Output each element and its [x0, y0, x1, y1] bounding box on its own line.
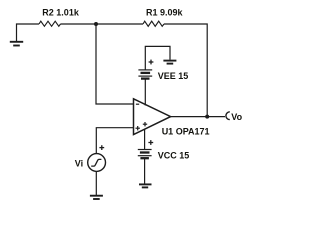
wire Vi source bottom to GND4	[95, 171, 97, 195]
source VG1 plus marker	[99, 145, 104, 150]
op-amp U1 inverting input marker	[136, 103, 139, 105]
wire from GND1 up to R2	[17, 24, 40, 42]
ground GND4	[90, 196, 103, 199]
ground GND3	[139, 184, 152, 187]
resistor R1	[143, 21, 164, 26]
wire non-inverting input to Vi source	[96, 128, 133, 154]
battery V2 VEE plates	[138, 70, 152, 79]
wire VEE battery bottom to op-amp top	[144, 79, 146, 106]
port Vo arc	[226, 112, 230, 120]
wire R2 to junction	[61, 23, 97, 25]
wire R1 to right corner down to output	[164, 24, 207, 117]
node junction J2 (output)	[205, 115, 209, 119]
source VG1 circle	[88, 154, 106, 172]
wire junction to R1	[96, 23, 143, 25]
op-amp U1 non-inverting input marker	[136, 126, 140, 130]
wire op-amp output to port Vo	[171, 116, 225, 118]
wire junction down to inverting input	[96, 24, 134, 104]
ground GND2	[163, 61, 176, 64]
svg-text:R2 1.01k: R2 1.01k	[42, 8, 80, 18]
ground GND1	[10, 42, 23, 46]
svg-text:R1 9.09k: R1 9.09k	[146, 8, 184, 18]
svg-text:Vi: Vi	[75, 158, 83, 168]
battery V1 VCC plus marker	[148, 140, 153, 145]
wire VCC battery bottom to GND3	[144, 158, 146, 184]
svg-text:U1 OPA171: U1 OPA171	[162, 126, 210, 136]
svg-text:Vo: Vo	[231, 112, 242, 122]
wire VEE battery top to GND2	[145, 46, 170, 69]
op-amp U1 body	[134, 99, 171, 135]
battery V1 VCC plates	[138, 150, 152, 159]
source VG1 waveform glyph	[91, 159, 101, 166]
wire op-amp bottom to VCC battery	[144, 129, 146, 149]
node junction J1	[94, 22, 98, 26]
svg-text:VEE 15: VEE 15	[158, 71, 189, 81]
battery V2 VEE plus marker	[149, 60, 154, 65]
svg-text:VCC 15: VCC 15	[158, 151, 190, 161]
resistor R2	[39, 21, 61, 26]
op-amp U1 positive supply marker	[143, 122, 147, 126]
